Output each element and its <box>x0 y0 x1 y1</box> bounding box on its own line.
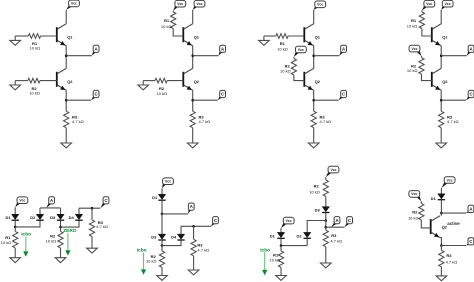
wire to terminal C <box>314 99 339 101</box>
wire D1 cathode to node A <box>161 200 163 214</box>
diode D3 (panel 6) <box>158 234 165 240</box>
node C junction <box>440 99 443 102</box>
svg-text:ZERO: ZERO <box>63 228 77 234</box>
svg-text:4.7 kΩ: 4.7 kΩ <box>197 247 209 252</box>
terminal A (panel 3) <box>339 45 346 56</box>
resistor R3 4.7 kΩ <box>311 111 316 128</box>
wire D4 anode up <box>78 208 80 214</box>
wire to terminal C <box>193 99 218 101</box>
node A junction <box>440 54 443 57</box>
svg-text:10 kΩ: 10 kΩ <box>1 240 12 245</box>
junction left-branch node <box>325 219 328 222</box>
terminal C (panel 6) <box>211 217 218 227</box>
wire to terminal A <box>66 55 92 57</box>
wire R1 to Q1 base <box>41 35 57 37</box>
ground below R3 (panel 6) <box>193 266 195 270</box>
ground below R1 (panel 7) <box>280 271 282 275</box>
resistor R1 <box>278 251 283 268</box>
resistor R2 10 kΩ vertical <box>291 59 296 76</box>
green current arrow ZERO <box>65 233 70 255</box>
svg-text:Q1: Q1 <box>194 35 200 40</box>
ground at Q1 base resistor <box>14 36 16 40</box>
junction D3/R2/D4 <box>161 244 164 247</box>
wire R2 to ground <box>60 248 62 253</box>
svg-text:Vcc: Vcc <box>177 2 183 6</box>
svg-text:A: A <box>50 198 53 203</box>
terminal C (panel 7) <box>345 217 353 228</box>
diode D1 (panel 6) <box>158 194 165 200</box>
svg-text:R2: R2 <box>314 184 320 189</box>
svg-text:A: A <box>342 46 345 51</box>
resistor R2 10 kΩ <box>155 78 167 83</box>
wire node to R3 <box>91 208 93 220</box>
wire R1 to ground <box>14 248 16 253</box>
wire node to R3 <box>325 227 327 230</box>
resistor R2 <box>159 251 164 268</box>
wire Q2 emitter down <box>65 90 67 111</box>
svg-text:Vcc: Vcc <box>411 47 417 51</box>
terminal C (panel 8, clipped) <box>466 238 474 246</box>
resistor R1 10 kΩ vertical <box>171 12 176 29</box>
transistor Q1 (panel 3) <box>304 24 313 46</box>
svg-text:D2: D2 <box>296 233 302 238</box>
svg-text:D1: D1 <box>431 196 437 201</box>
junction R3 node <box>192 225 195 228</box>
diode D2 (panel 5) <box>36 214 43 220</box>
wire Vcc to R1 <box>172 11 174 12</box>
svg-text:10 kΩ: 10 kΩ <box>46 238 57 243</box>
wire Q2 emitter down <box>313 90 315 111</box>
wire Vcc to R1 <box>421 11 423 12</box>
terminal A (panel 2) <box>218 45 225 56</box>
terminal C (panel 5) <box>100 197 109 209</box>
wire R3 to ground <box>313 128 315 139</box>
ground below R3 (panel 2) <box>192 139 194 143</box>
wire Q2 emitter down <box>192 90 194 111</box>
wire Vcc to Q1 collector <box>65 10 67 24</box>
svg-text:Vcc: Vcc <box>426 2 432 6</box>
ground at Q2 base resistor <box>142 81 144 85</box>
diode D1 (panel 5) <box>12 214 19 220</box>
wire node to Q2 collector <box>440 213 442 216</box>
svg-text:Icbo: Icbo <box>137 248 147 254</box>
wire R1 to Q1 base <box>422 29 432 37</box>
wire Vcc to D1 anode <box>14 207 16 214</box>
ground below R3 (panel 1) <box>65 139 67 143</box>
node A junction <box>65 54 68 57</box>
svg-text:C: C <box>95 92 98 97</box>
junction node A <box>440 212 443 215</box>
svg-text:Vcc: Vcc <box>317 3 323 7</box>
wire Vcc to D1 <box>280 228 282 232</box>
wire node to D4 cathode <box>61 220 80 227</box>
svg-text:C: C <box>221 92 224 97</box>
wire R2 to ground <box>161 267 163 271</box>
node C junction <box>312 99 315 102</box>
Vcc supply label (Q1 collector) panel 3 <box>314 1 326 10</box>
wire Vcc to R2 <box>420 201 422 203</box>
svg-text:4.7 kΩ: 4.7 kΩ <box>447 119 459 124</box>
wire D2-D3 anodes <box>40 207 61 209</box>
svg-text:Vcc: Vcc <box>286 219 292 223</box>
wire Vcc to Q1 collector <box>440 10 442 24</box>
wire D1 cathode down <box>280 239 282 246</box>
diode D4 (panel 6) <box>177 234 184 240</box>
svg-text:Vcc: Vcc <box>71 2 77 6</box>
ground below R2 (panel 5) <box>60 253 62 257</box>
junction node C <box>440 244 443 247</box>
svg-text:C: C <box>104 198 107 203</box>
svg-text:A: A <box>95 46 98 51</box>
terminal A (panel 1) <box>92 45 99 56</box>
svg-text:C: C <box>348 218 351 223</box>
resistor R1 10 kΩ (panel 3) <box>276 34 288 39</box>
wire node to terminal A <box>162 213 188 215</box>
wire R3 to ground <box>440 267 442 272</box>
wire node down <box>325 221 327 228</box>
wire Q2 emitter down <box>440 238 441 246</box>
svg-text:10 kΩ: 10 kΩ <box>408 216 419 221</box>
wire Vcc to D1 <box>161 188 163 194</box>
wire D1 cathode to node A <box>440 200 442 213</box>
svg-text:active: active <box>447 221 460 226</box>
wire to terminal C <box>441 99 466 101</box>
junction D1/R1 node <box>14 226 17 229</box>
ground below R3 (panel 3) <box>313 139 315 143</box>
wire node to R1 <box>280 246 282 251</box>
svg-text:4.7 kΩ: 4.7 kΩ <box>446 260 458 265</box>
wire D1 node to D2 cathode <box>15 220 40 227</box>
transistor Q1 (panel 2) <box>183 24 192 46</box>
terminal A (panel 8, clipped) <box>466 205 474 213</box>
wire node to R3 <box>440 246 442 251</box>
terminal C (panel 4) <box>466 90 474 100</box>
svg-text:D4: D4 <box>171 234 177 239</box>
wire R3 to ground <box>440 128 442 139</box>
wire D3 cathode down <box>325 213 327 221</box>
svg-text:D1: D1 <box>5 215 11 220</box>
terminal C (panel 3) <box>339 90 347 100</box>
junction R3 node <box>91 207 94 210</box>
Vcc supply label (R2) panel 3 <box>294 46 306 57</box>
wire node A down to D3 <box>161 214 163 234</box>
wire Vcc to Q1 collector <box>192 10 194 24</box>
wire D2 cathode down <box>306 239 308 246</box>
green current arrow Icbo <box>262 252 267 275</box>
svg-text:10 kΩ: 10 kΩ <box>309 189 320 194</box>
svg-text:10 kΩ: 10 kΩ <box>30 46 41 51</box>
wire Q1 emitter to Q2 collector <box>192 46 194 69</box>
diode D1 (panel 7) <box>277 232 284 238</box>
svg-text:A: A <box>470 46 473 51</box>
svg-text:Icbo: Icbo <box>21 231 31 237</box>
green current arrow Icbo <box>23 237 28 257</box>
svg-text:10 kΩ: 10 kΩ <box>407 23 418 28</box>
junction A/C/R3 node <box>325 226 328 229</box>
resistor R3 <box>439 250 444 266</box>
svg-text:Q2: Q2 <box>67 79 73 84</box>
Vcc supply label (R2) panel 4 <box>409 45 421 56</box>
wire to terminal A <box>441 55 467 57</box>
svg-text:R2: R2 <box>412 210 418 215</box>
svg-text:A: A <box>335 218 338 223</box>
resistor R3 <box>191 239 196 256</box>
diode D3 (panel 5) <box>57 214 64 220</box>
terminal A (panel 7) <box>331 217 340 228</box>
wire Vcc to R2 <box>421 56 423 58</box>
wire R2 to Q2 base <box>167 80 183 82</box>
wire node to terminal C <box>326 226 345 228</box>
wire R3 to ground <box>325 247 327 259</box>
resistor R2 <box>58 231 63 248</box>
wire R3 to ground <box>65 128 67 139</box>
wire Q1 emitter to Q2 collector <box>313 46 315 69</box>
svg-text:Vcc: Vcc <box>298 48 304 52</box>
junction D3/R2/D4 node <box>59 226 62 229</box>
Vcc supply label (Q1 collector) panel 4 <box>441 0 453 10</box>
Vcc supply label (R1) panel 2 <box>173 0 186 10</box>
wire ground to R1 <box>264 35 276 37</box>
svg-text:4.7 kΩ: 4.7 kΩ <box>72 119 84 124</box>
svg-text:Q1: Q1 <box>315 35 321 40</box>
wire ground to R2 <box>143 80 155 82</box>
transistor Q2 (panel 3) <box>304 68 313 90</box>
svg-text:Q1: Q1 <box>442 35 448 40</box>
terminal C (panel 2) <box>218 90 226 100</box>
wire R1 to Q1 base <box>288 35 304 37</box>
svg-text:Vcc: Vcc <box>411 192 417 196</box>
wire R2 to Q2 base <box>294 75 304 81</box>
wire D4 to terminal C <box>181 225 211 227</box>
svg-text:Q1: Q1 <box>67 35 73 40</box>
svg-text:10 kΩ: 10 kΩ <box>270 258 281 263</box>
svg-text:Q2: Q2 <box>194 79 200 84</box>
wire R1 to Q1 base <box>173 29 183 37</box>
resistor R3 4.7 kΩ <box>64 111 69 128</box>
svg-text:10 kΩ: 10 kΩ <box>277 46 288 51</box>
wire D1 cathode down <box>14 220 16 227</box>
wire to terminal A <box>193 55 219 57</box>
svg-text:C: C <box>469 239 472 244</box>
svg-text:4.7 kΩ: 4.7 kΩ <box>330 239 342 244</box>
wire Q1 emitter to Q2 collector <box>440 46 442 69</box>
wire node to R2 <box>161 246 163 251</box>
svg-text:10 kΩ: 10 kΩ <box>29 90 40 95</box>
svg-text:R1: R1 <box>273 252 279 257</box>
wire to D2 anode <box>39 208 41 214</box>
svg-text:10 kΩ: 10 kΩ <box>146 259 157 264</box>
svg-text:Vcc: Vcc <box>19 199 25 203</box>
node A junction <box>312 54 315 57</box>
junction node A <box>161 213 164 216</box>
transistor Q1 (panel 1) <box>57 24 66 46</box>
svg-text:D3: D3 <box>315 208 321 213</box>
diode D3 (panel 7) <box>322 207 329 213</box>
svg-text:4.7 kΩ: 4.7 kΩ <box>96 224 108 229</box>
wire Q2 emitter down <box>440 90 442 111</box>
resistor R3 <box>323 230 328 247</box>
wire to terminal A <box>314 55 340 57</box>
wire node to D4 cathode <box>162 240 181 245</box>
wire R2 to Q2 base <box>40 80 57 82</box>
svg-text:D1: D1 <box>270 233 276 238</box>
svg-text:A: A <box>221 46 224 51</box>
svg-text:Vcc: Vcc <box>445 2 451 6</box>
Vcc supply label (Q1 collector) panel 1 <box>66 0 79 10</box>
svg-text:A: A <box>469 207 472 212</box>
junction D1/R1 node <box>280 244 283 247</box>
wire Vcc to R2 <box>325 177 327 180</box>
wire ground to R2 <box>15 80 28 82</box>
ground below R3 (panel 5) <box>91 244 93 248</box>
svg-text:Vcc: Vcc <box>447 178 453 182</box>
wire Vcc to R2 <box>293 57 295 59</box>
diode D1 (panel 8) <box>438 194 445 200</box>
node C junction <box>65 99 68 102</box>
terminal C (panel 1) <box>91 90 99 100</box>
svg-text:D2: D2 <box>30 215 36 220</box>
svg-text:4.7 kΩ: 4.7 kΩ <box>320 119 332 124</box>
Vcc supply label (panel 8) <box>441 177 455 188</box>
node C junction <box>191 99 194 102</box>
node A junction <box>191 54 194 57</box>
svg-text:10 kΩ: 10 kΩ <box>280 68 291 73</box>
wire node to D2 anode <box>307 221 326 233</box>
Vcc supply label for R2 (panel 8) <box>409 191 421 202</box>
svg-text:D3: D3 <box>50 215 56 220</box>
svg-text:C: C <box>470 92 473 97</box>
ground below R3 (panel 8) <box>440 272 442 276</box>
svg-text:Q2: Q2 <box>442 79 448 84</box>
svg-text:R1: R1 <box>164 18 170 23</box>
wire ground to R1 <box>15 35 28 37</box>
wire node to R2 <box>60 227 62 231</box>
resistor R3 <box>89 220 94 237</box>
svg-text:10 kΩ: 10 kΩ <box>157 91 168 96</box>
wire Q1 emitter to Q2 collector <box>65 46 67 69</box>
wire node to R1 <box>14 227 16 232</box>
transistor Q2 (panel 2) <box>183 68 192 90</box>
wire node to terminal A <box>441 212 466 214</box>
terminal A (panel 6) <box>188 203 194 214</box>
wire Vcc to Q1 collector <box>313 10 315 24</box>
resistor R2 10 kΩ <box>28 78 40 83</box>
resistor R2 <box>419 203 424 220</box>
green current arrow Icbo <box>141 253 146 275</box>
wire node to terminal C <box>441 245 466 247</box>
svg-text:A: A <box>190 204 193 209</box>
resistor R2 10 kΩ vertical <box>419 58 424 75</box>
svg-text:R3: R3 <box>446 253 452 258</box>
svg-text:D4: D4 <box>69 215 75 220</box>
wire R2 to Q2 base <box>421 220 430 228</box>
ground below R1 (panel 5) <box>14 253 16 257</box>
wire to D3 anode <box>60 208 62 214</box>
resistor R2 <box>323 180 328 197</box>
wire D3 cathode down <box>60 220 62 227</box>
svg-text:R3: R3 <box>331 233 337 238</box>
terminal A (panel 4) <box>467 45 474 56</box>
transistor Q2 (panel 1) <box>57 68 66 90</box>
svg-text:Vcc: Vcc <box>330 168 336 172</box>
wire R3 to ground <box>192 128 194 139</box>
resistor R3 4.7 kΩ <box>439 111 444 128</box>
svg-text:C: C <box>342 92 345 97</box>
resistor R3 4.7 kΩ <box>190 111 195 128</box>
svg-text:Vcc: Vcc <box>196 2 202 6</box>
transistor Q1 (panel 4) <box>432 24 441 46</box>
wire R2 to D3 <box>325 196 327 206</box>
ground at Q1 base resistor <box>263 36 265 40</box>
resistor R1 10 kΩ vertical <box>419 12 424 29</box>
wire R2 to Q2 base <box>422 74 432 81</box>
svg-text:10 kΩ: 10 kΩ <box>407 68 418 73</box>
diode D2 (panel 7) <box>304 232 311 238</box>
wire R1 to ground <box>280 267 282 271</box>
wire D4 anode up <box>180 226 182 234</box>
Vcc supply label for D1 (panel 7) <box>281 217 294 228</box>
ground below R2 (panel 6) <box>161 271 163 275</box>
wire D3 cathode down <box>161 240 163 245</box>
resistor R1 <box>13 231 18 248</box>
transistor Q2 (panel 4) <box>432 68 441 90</box>
svg-text:C: C <box>214 218 217 223</box>
Vcc supply label (Q1 collector) panel 2 <box>193 0 205 10</box>
Vcc supply label (panel 6) <box>162 178 173 189</box>
ground below R3 (panel 4) <box>440 139 442 143</box>
svg-text:Vcc: Vcc <box>165 180 171 184</box>
terminal A (panel 5) <box>46 197 54 208</box>
svg-text:10 kΩ: 10 kΩ <box>161 24 172 29</box>
wire to terminal C <box>66 99 91 101</box>
wire D4 to R3/C <box>79 207 100 209</box>
wire R3 to ground <box>193 256 195 266</box>
svg-text:D1: D1 <box>152 195 158 200</box>
ground at Q2 base resistor <box>14 81 16 85</box>
Vcc supply label (R1) panel 4 <box>422 0 435 10</box>
diode D4 (panel 5) <box>75 214 82 220</box>
svg-text:4.7 kΩ: 4.7 kΩ <box>199 119 211 124</box>
ground below R3 (panel 7) <box>325 259 327 263</box>
wire node to R3 <box>193 226 195 239</box>
transistor Q2 (panel 8) <box>431 216 440 238</box>
wire R3 to ground <box>91 236 93 243</box>
Vcc supply label (panel 5) <box>15 197 28 207</box>
wire D2 cathode to D1 node <box>281 245 307 247</box>
svg-text:D3: D3 <box>151 234 157 239</box>
Vcc supply label (panel 7) <box>326 166 339 177</box>
wire Vcc to D1 <box>440 188 442 194</box>
resistor R1 10 kΩ (panel 1) <box>28 34 40 39</box>
svg-text:Q2: Q2 <box>315 79 321 84</box>
